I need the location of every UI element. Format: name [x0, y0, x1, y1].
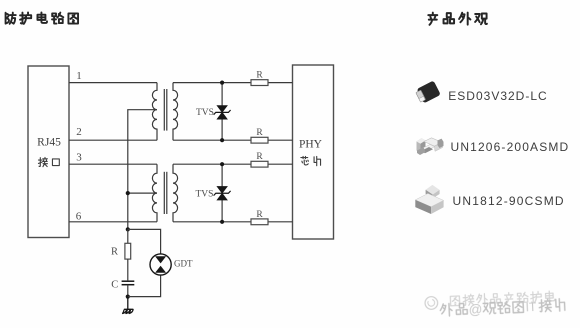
svg-text:R: R [256, 71, 263, 81]
svg-text:PHY: PHY [299, 139, 323, 151]
PHY chip box [293, 65, 334, 239]
svg-text:R: R [111, 246, 118, 257]
svg-text:UN1812-90CSMD: UN1812-90CSMD [453, 194, 565, 208]
svg-text:R: R [256, 210, 263, 220]
TVS D1 symbol [214, 105, 231, 119]
svg-text:1: 1 [76, 70, 82, 82]
wire pin6 row [69, 221, 293, 223]
wire pin3 row [69, 163, 293, 165]
TVS D2 branch [221, 164, 223, 222]
title: 产品外观 [428, 13, 487, 25]
junction ground node [126, 295, 130, 299]
junction TVS D2 bottom [220, 220, 224, 224]
transformer T1 [152, 83, 177, 141]
junction TVS D1 top [220, 81, 224, 85]
junction TVS D2 top [220, 162, 224, 166]
ground (chassis) [123, 309, 134, 313]
svg-text:RJ45: RJ45 [37, 136, 61, 148]
resistor R5 [111, 243, 131, 259]
junction center-tap T2 [126, 191, 130, 195]
resistor R4 [251, 210, 268, 225]
transformer T2 [152, 164, 177, 222]
wire pin2 row [69, 139, 293, 141]
RJ45 connector box [28, 66, 69, 238]
wire R5 top [127, 229, 129, 243]
svg-text:GDT: GDT [174, 259, 193, 269]
svg-text:3: 3 [76, 151, 82, 163]
TVS D1 branch [221, 83, 223, 141]
wire ground stem [127, 297, 129, 310]
wire GDT top jog [128, 229, 161, 253]
resistor R2 [251, 128, 268, 143]
title: 防护电路图 [6, 12, 78, 23]
svg-text:R: R [256, 152, 263, 162]
product icon UN1812-90CSMD [415, 185, 443, 214]
junction TVS D1 bottom [220, 138, 224, 142]
PHY label [299, 139, 323, 166]
junction R/GDT node [126, 227, 130, 231]
product icon UN1206-200ASMD [417, 138, 444, 155]
resistor R3 [251, 152, 268, 167]
wire GDT bottom jog [128, 275, 161, 296]
wire R5 to C1 [127, 259, 129, 280]
TVS D2 symbol [214, 186, 231, 200]
RJ45 label [37, 136, 61, 166]
product icon ESD03V32D-LC [415, 80, 441, 104]
wire center-tap bus [128, 110, 157, 230]
wire C1 to ground node [127, 285, 129, 297]
svg-text:UN1206-200ASMD: UN1206-200ASMD [451, 140, 570, 154]
svg-text:C: C [111, 279, 118, 290]
svg-text:TVS: TVS [196, 108, 214, 118]
svg-text:@: @ [468, 302, 482, 318]
resistor R1 [251, 71, 268, 86]
svg-text:2: 2 [76, 126, 82, 138]
svg-text:6: 6 [76, 210, 82, 222]
svg-text:TVS: TVS [196, 190, 214, 200]
GDT G1 [150, 254, 171, 275]
wire pin1 row [69, 82, 293, 84]
capacitor C1 [111, 279, 134, 290]
svg-text:IT: IT [525, 300, 537, 314]
svg-text:ESD03V32D-LC: ESD03V32D-LC [448, 89, 547, 103]
svg-text:R: R [256, 128, 263, 138]
watermark [425, 290, 565, 319]
